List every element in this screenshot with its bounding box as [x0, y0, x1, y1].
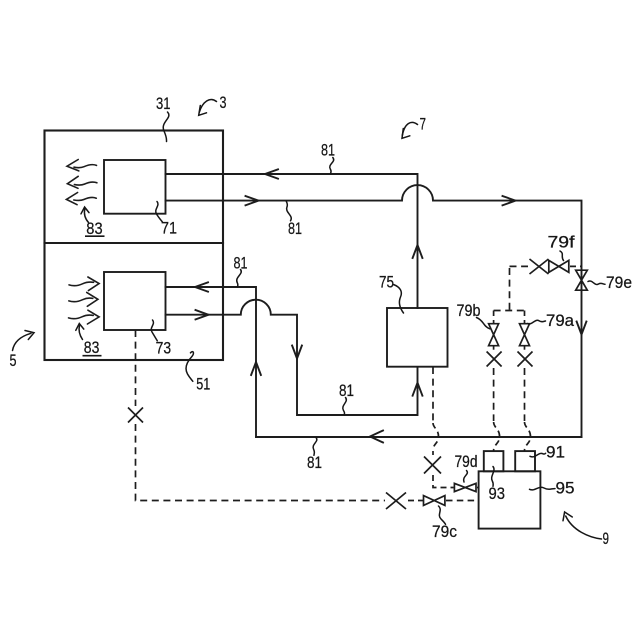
svg-text:71: 71	[161, 220, 177, 238]
dashed branch 79f	[510, 265, 529, 267]
svg-text:81: 81	[321, 141, 335, 159]
leader 79b	[477, 318, 490, 329]
leader 81 second	[286, 201, 291, 221]
svg-text:79d: 79d	[455, 453, 478, 471]
heat wave arrow room 2 row 2	[69, 298, 93, 302]
heat exchanger box 75	[387, 308, 448, 367]
room divider wall	[45, 242, 224, 244]
arrow down on right vertical	[577, 322, 587, 335]
valve 79f bowtie	[549, 260, 559, 272]
indoor unit outer box 3	[45, 131, 224, 361]
cross mark below 79a	[518, 352, 533, 367]
valve 79a hourglass	[520, 324, 530, 335]
leader 79f	[560, 251, 564, 261]
leader 73	[151, 320, 157, 341]
svg-text:79f: 79f	[548, 234, 576, 252]
leader 79e	[588, 281, 605, 285]
dashed stub to 79a	[524, 311, 526, 324]
arrow 9	[566, 516, 602, 539]
svg-text:73: 73	[156, 339, 172, 357]
leader 79c	[439, 506, 446, 524]
heat wave arrow room 1 row 3	[74, 197, 97, 200]
leader 31	[163, 112, 169, 142]
leader 79d	[464, 471, 468, 483]
svg-text:7: 7	[420, 116, 427, 134]
arrow 83 top	[84, 209, 88, 223]
arrow 3	[199, 100, 216, 113]
svg-text:81: 81	[307, 454, 322, 472]
svg-text:81: 81	[234, 255, 248, 273]
heat wave arrow room 2 row 3	[69, 315, 94, 319]
heat exchanger box 71	[104, 160, 166, 214]
svg-text:81: 81	[339, 382, 354, 400]
arrow right on P2	[246, 196, 259, 205]
cross mark 79f	[530, 259, 549, 274]
leader 93	[492, 467, 494, 487]
svg-text:79a: 79a	[546, 312, 575, 330]
valve 79b hourglass	[489, 324, 499, 335]
dashed jog over P5 at x494	[494, 422, 500, 451]
dashed drain from box 75	[432, 367, 434, 421]
arrow down on drop x297	[292, 346, 302, 359]
heat wave arrow room 1 row 2	[74, 182, 97, 185]
arrow right on P4	[196, 310, 209, 319]
cross mark on dashed x135	[128, 408, 143, 423]
svg-text:95: 95	[556, 480, 575, 498]
svg-text:31: 31	[156, 95, 171, 113]
svg-text:83: 83	[86, 220, 102, 238]
leader 71	[156, 202, 163, 222]
dashed stub to 79b	[493, 311, 495, 324]
arrow up on riser x256	[251, 362, 261, 375]
dashed segment 79f to vertical	[570, 265, 582, 267]
svg-text:83: 83	[84, 339, 100, 357]
dashed header over 79a 79b	[494, 310, 525, 312]
arrow 83 bottom	[79, 326, 82, 340]
svg-text:75: 75	[379, 274, 394, 292]
arrow left on P5	[370, 431, 383, 443]
cross mark below 79b	[487, 352, 502, 367]
svg-text:79b: 79b	[457, 302, 481, 320]
arrow up on riser to P1	[413, 245, 423, 258]
svg-text:93: 93	[489, 485, 506, 503]
svg-text:91: 91	[546, 444, 565, 462]
arrow 5	[13, 333, 32, 350]
charge unit box 95	[479, 471, 541, 528]
leader 91	[530, 453, 546, 457]
valve 79e hourglass	[576, 270, 588, 290]
dashed stub below 79a	[524, 346, 526, 350]
arrow 7	[402, 122, 417, 135]
heat exchanger box 73	[104, 272, 166, 330]
gas cylinder box 93	[484, 451, 504, 471]
leader 81 fifth	[313, 438, 317, 456]
dashed segment 79c to box 95	[446, 500, 479, 502]
leader 79a	[528, 320, 546, 324]
dashed jog over P5 at x524	[525, 422, 531, 451]
arrow left on P3	[195, 282, 208, 291]
leader 95	[530, 487, 556, 490]
svg-text:5: 5	[10, 352, 17, 370]
dashed jog over P5 at x433	[433, 423, 439, 450]
leader 51	[186, 352, 193, 382]
dashed line continue down	[136, 424, 386, 501]
arrow right on P2 east	[503, 196, 516, 205]
dashed segment 79d to box 95	[477, 487, 479, 489]
wire pipe P2 with bridge bump	[166, 185, 582, 437]
dashed segment to valve 79c	[408, 500, 424, 502]
wire pipe P5 bottom	[256, 436, 582, 438]
dashed line from 73 down and right to 95	[135, 330, 137, 406]
leader 75	[394, 285, 404, 314]
valve 79d bowtie	[454, 483, 465, 491]
wire pipe P1 top	[166, 174, 418, 308]
dashed stub below 79b	[493, 346, 495, 350]
leader 81 fourth	[343, 398, 347, 415]
arrow left on P1	[265, 169, 278, 178]
dashed drop from 79a cross to pipe	[524, 368, 526, 421]
valve 79c bowtie	[424, 496, 435, 506]
cross mark x433	[424, 457, 441, 474]
arrow up below box 75	[413, 383, 423, 396]
svg-text:81: 81	[288, 220, 302, 238]
gas cylinder box 91	[515, 451, 535, 471]
dashed drop from 79f branch	[509, 268, 511, 312]
svg-text:79e: 79e	[606, 274, 632, 292]
heat wave arrow room 2 row 1	[69, 282, 94, 286]
wire pipe P4 with bridge bump	[166, 300, 418, 415]
wire pipe P3	[166, 287, 257, 437]
leader 81 third	[237, 270, 242, 287]
dashed drop from 79b cross to pipe	[493, 368, 495, 421]
leader 81 top	[330, 158, 334, 174]
svg-text:3: 3	[220, 94, 227, 112]
dashed elbow to valve 79d	[433, 475, 454, 488]
svg-text:79c: 79c	[432, 523, 457, 541]
heat wave arrow room 1 row 1	[74, 165, 97, 168]
svg-text:51: 51	[196, 375, 210, 393]
cross mark on dashed y500	[386, 493, 406, 510]
svg-text:9: 9	[603, 530, 610, 548]
dashed continue to X	[432, 451, 434, 455]
